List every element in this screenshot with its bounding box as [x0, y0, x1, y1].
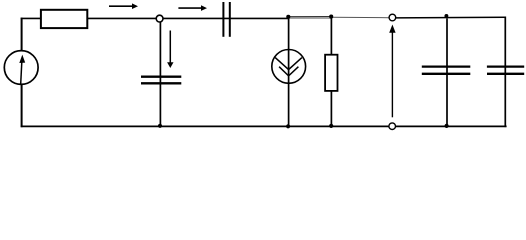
junction dot bottom of dependent source [286, 124, 290, 128]
wire left vertical upper (top rail to source) [21, 18, 23, 51]
junction dot bottom of R2 [329, 124, 333, 128]
current arrow after R1 [109, 3, 138, 9]
junction dot bottom of C3 [445, 124, 449, 128]
junction dot at C1 / bottom rail [158, 124, 162, 128]
wire top rail (right section, port to top-right corner) [396, 16, 506, 19]
resistor R2 (shunt) [325, 55, 337, 91]
dependent current source U1 (double-chevron) [272, 50, 306, 84]
junction dot top of R2 [329, 15, 333, 19]
output port top (open circle) [389, 14, 396, 21]
capacitor C1 (shunt) [141, 77, 181, 84]
junction dot top of dependent source [286, 15, 290, 19]
wire right vertical (C4 branch, top-right to bottom-right corner) [504, 17, 506, 128]
junction dot top of C3 [444, 14, 448, 18]
current arrow down into C1 [167, 31, 173, 69]
node (open terminal circle on top rail) [156, 15, 163, 22]
wire top rail (thin dark segment dep-source node to R2 node) [289, 16, 332, 18]
wire left vertical lower (source to bottom rail) [21, 85, 23, 127]
current arrow before C2 [178, 5, 207, 11]
wire dependent source branch vertical [288, 18, 290, 126]
capacitor C2 (series on top rail) [223, 2, 229, 37]
capacitor C4 (right edge shunt) [487, 67, 524, 74]
wire top rail (left section, source to dependent-source node) [21, 17, 289, 19]
wire bottom rail [21, 125, 507, 127]
capacitor C3 (shunt) [422, 67, 471, 74]
voltage arrow up between ports [389, 25, 395, 118]
wire resistor R2 branch vertical [330, 18, 332, 126]
wire top rail (faint thin segment R2 to output port) [332, 16, 390, 18]
output port bottom (open circle) [389, 123, 396, 130]
current source I1 [4, 51, 38, 85]
wire shunt C1 branch vertical [159, 18, 161, 126]
resistor R1 [41, 10, 87, 28]
wire top rail (faint under-segment dep-source node to R2 node) [289, 17, 332, 19]
wire shunt C3 branch vertical [446, 18, 448, 126]
